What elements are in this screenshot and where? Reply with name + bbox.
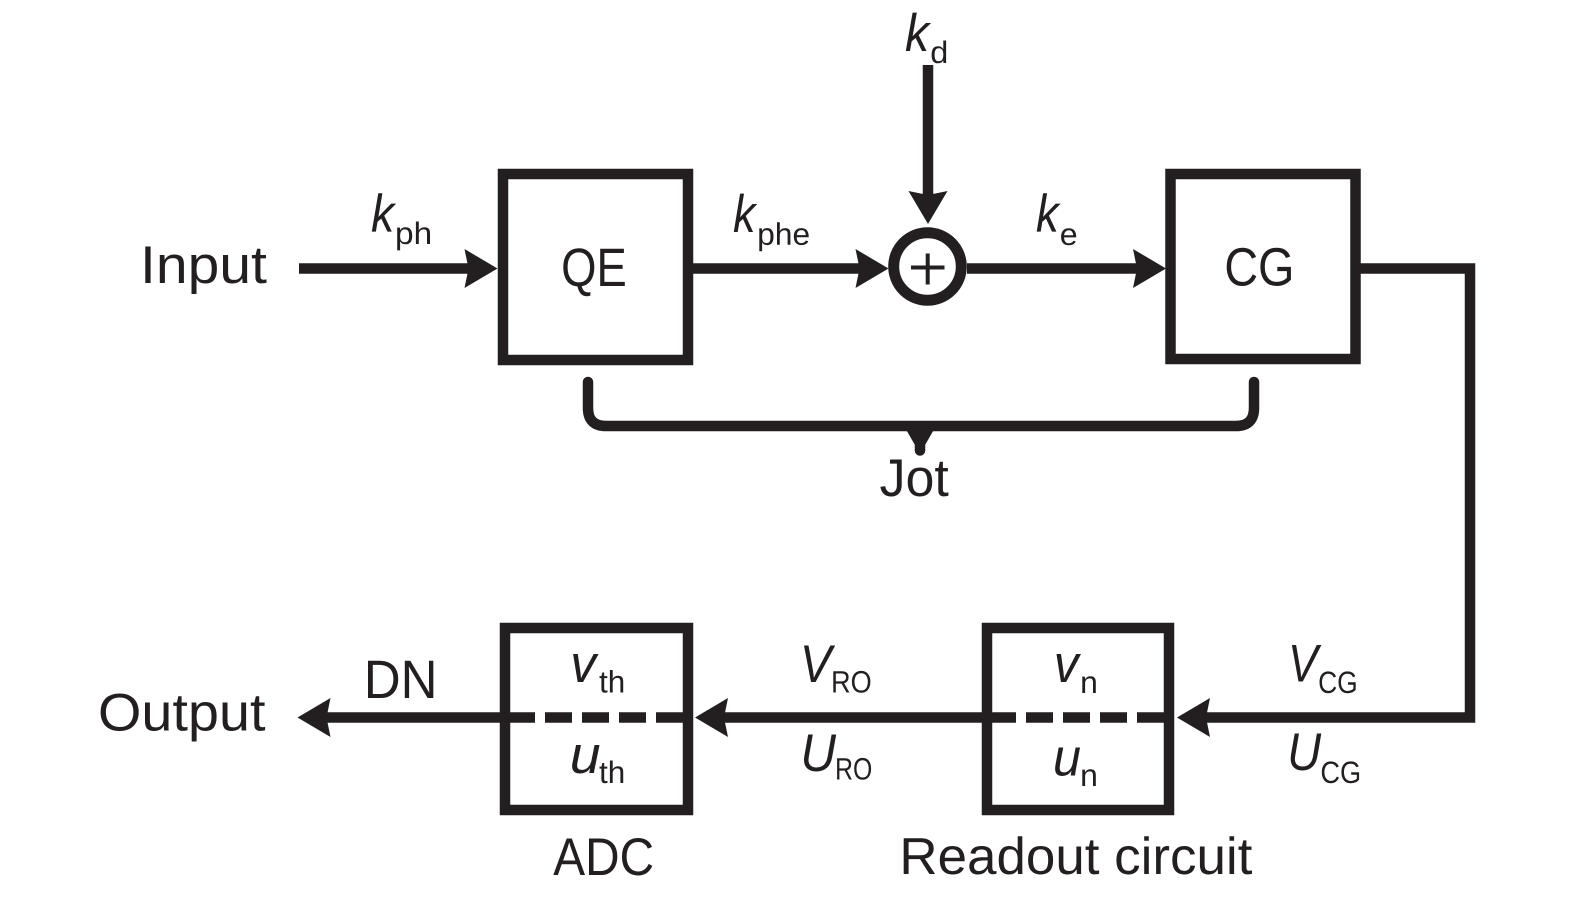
wire k_d into summing node [923, 65, 934, 198]
label v of v_n [1057, 654, 1082, 682]
label sub RO [833, 671, 870, 693]
label k of k_phe [734, 194, 758, 232]
label sub d [932, 41, 947, 64]
label ADC [553, 838, 652, 876]
arrowhead into summing node [856, 249, 889, 288]
brace center wedge [904, 426, 936, 446]
arrowhead into Readout [1177, 698, 1210, 737]
wire ADC to Output [324, 712, 500, 723]
label sub e [1061, 228, 1076, 245]
wire Readout to ADC [721, 712, 982, 723]
label sub RO lower [837, 758, 871, 780]
dashed wire through ADC box [508, 712, 690, 723]
summing node circle [894, 233, 962, 301]
label V of V_RO [804, 646, 835, 683]
label k of k_e [1037, 193, 1061, 231]
arrowhead into CG [1133, 249, 1166, 288]
block QE [503, 174, 688, 360]
arrowhead into QE [465, 249, 498, 288]
wire Input to QE [299, 263, 471, 274]
label Input [145, 247, 266, 295]
block Readout circuit [987, 628, 1169, 810]
plus sign in summing node [911, 254, 945, 285]
label sub th lower (ADC) [600, 761, 624, 784]
label Readout circuit [904, 836, 1252, 874]
wire summing node to CG [967, 263, 1140, 274]
arrowhead into ADC [695, 698, 728, 737]
label sub th (ADC) [600, 670, 624, 693]
label sub n [1082, 676, 1096, 693]
label sub CG [1320, 671, 1356, 693]
label sub CG lower [1322, 761, 1359, 783]
label DN [368, 661, 433, 698]
label Jot [880, 460, 948, 497]
wire QE to summing node [693, 263, 862, 274]
label CG [1227, 248, 1291, 286]
block ADC [505, 628, 688, 810]
dashed wire through Readout box [989, 712, 1174, 723]
label sub n lower [1082, 769, 1096, 786]
label V of V_CG [1292, 645, 1322, 682]
label k of k_ph [372, 193, 396, 231]
brace under jot [588, 382, 1254, 451]
label U of U_RO [804, 735, 836, 772]
label u of u_th [572, 745, 599, 774]
arrowhead to Output [298, 698, 331, 737]
arrowhead k_d down [909, 191, 948, 224]
label sub ph [397, 222, 430, 251]
label QE [563, 248, 625, 296]
label sub phe [759, 222, 809, 251]
label u of u_n [1055, 748, 1080, 777]
label Output [101, 694, 266, 742]
block CG [1171, 174, 1356, 359]
label U of U_CG [1291, 734, 1322, 771]
label v of v_th [573, 654, 599, 682]
label k of k_d [906, 13, 931, 51]
wire CG feedback down to Readout [1203, 269, 1470, 718]
